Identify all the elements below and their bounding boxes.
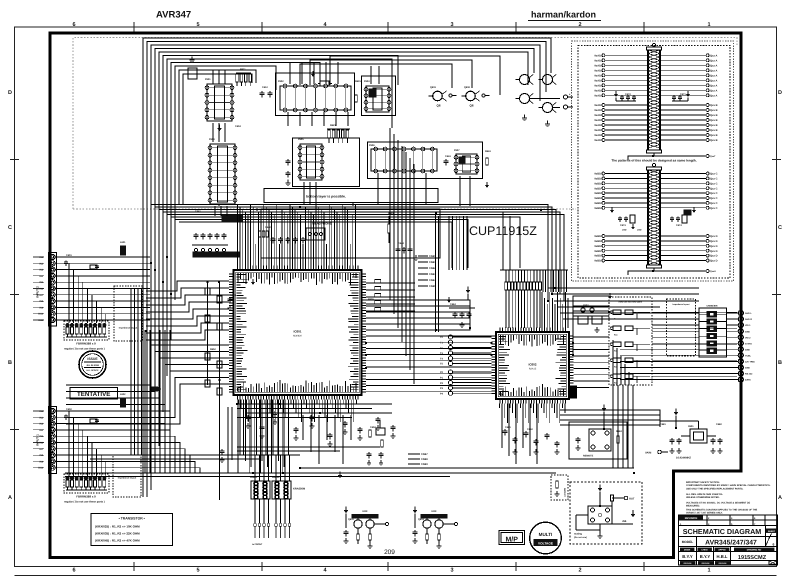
wire (QFP2 right) xyxy=(574,361,610,363)
wire (QFP1 top pin) xyxy=(265,207,267,266)
capacitor C648 xyxy=(376,417,381,424)
svg-text:C642: C642 xyxy=(265,226,271,229)
wire (QFP1 top pin) xyxy=(294,210,296,266)
svg-text:Qxx B: Qxx B xyxy=(710,104,718,107)
svg-text:Impedance layout: Impedance layout xyxy=(673,303,690,306)
CN604 pin xyxy=(699,341,727,346)
ref label P603 xyxy=(364,80,370,83)
wire (QFP1 bottom) xyxy=(324,400,326,418)
ref label X602 xyxy=(583,304,589,307)
svg-text:6: 6 xyxy=(72,568,75,574)
ground xyxy=(246,423,251,429)
svg-text:P604: P604 xyxy=(209,138,215,141)
resistor R640 xyxy=(388,216,391,243)
wire bus (mid horizontal) xyxy=(151,205,548,302)
ref label C642 xyxy=(265,226,271,229)
wire (QFP1 left) xyxy=(146,302,229,312)
grid column number 5 xyxy=(196,22,199,28)
bead near input1 xyxy=(90,398,126,423)
wire (QFP1 bottom) xyxy=(316,400,318,405)
svg-text:THIS SCHEMATIC DIAGRAM APPLIES: THIS SCHEMATIC DIAGRAM APPLIES TO THE CH… xyxy=(686,509,758,512)
wire (QFP2 top up) xyxy=(550,270,552,292)
unused part row xyxy=(610,326,650,337)
wire (QFP1 bottom) xyxy=(248,400,250,423)
wire (QFP1 top pin) xyxy=(339,215,341,266)
wire (QFP1 bottom) xyxy=(355,400,357,405)
wire (QFP1 bottom long) xyxy=(272,400,274,456)
capacitor C643 xyxy=(294,427,299,434)
wire (vertical bus right of QFP1) xyxy=(409,158,411,370)
wire (QFP2 right) xyxy=(574,355,610,357)
wire (QFP2 top up) xyxy=(552,270,554,292)
svg-text:C671: C671 xyxy=(680,93,686,96)
wire (QFP2 top up) xyxy=(563,270,565,292)
ref label P604 xyxy=(209,138,215,141)
line-out label xyxy=(574,533,587,540)
ref label R611 xyxy=(240,68,246,71)
svg-text:J56: J56 xyxy=(622,520,627,523)
svg-text:FBRRM389 x 9: FBRRM389 x 9 xyxy=(76,495,96,499)
bottom header row xyxy=(679,548,778,552)
wire (QFP2 bottom) xyxy=(517,404,519,424)
wire (QFP1 bottom) xyxy=(306,400,308,409)
wire (comb riser2) xyxy=(509,216,511,270)
TENTATIVE text xyxy=(77,391,110,398)
wire bus (to right connector) xyxy=(563,318,652,320)
resistor array R62x xyxy=(327,129,350,143)
svg-text:9xAD: 9xAD xyxy=(594,59,601,62)
svg-text:9xBD: 9xBD xyxy=(594,207,601,210)
junction dot xyxy=(572,354,575,357)
junction dot xyxy=(633,472,636,475)
svg-text:ISSUE: ISSUE xyxy=(87,357,98,361)
svg-text:(KRXI045) : R1, R2 => 47K OHM: (KRXI045) : R1, R2 => 47K OHM xyxy=(95,539,140,543)
crystal cap left xyxy=(670,438,682,445)
wire bus (top-left spine) xyxy=(151,45,540,490)
junction dot xyxy=(206,281,209,284)
svg-text:R655: R655 xyxy=(368,298,374,301)
crystal gflag xyxy=(674,408,679,428)
capacitor C649 xyxy=(391,425,396,432)
wire (QFP2 top) xyxy=(541,292,543,328)
headphone jack body xyxy=(306,228,325,240)
wire (QFP1 right stub) xyxy=(366,280,415,283)
junction dot xyxy=(252,472,255,475)
RCA jack terminal xyxy=(564,93,574,99)
test point TP2 xyxy=(440,381,492,385)
svg-text:YCBL: YCBL xyxy=(745,354,752,357)
twisted bus CN606 (lower) xyxy=(647,163,662,268)
wire (QFP1 top pin) xyxy=(352,215,354,266)
svg-text:CN68: CN68 xyxy=(421,458,428,461)
wire (IC-D bottom stub) xyxy=(214,206,216,216)
wire (QFP1-QFP2 bus) xyxy=(366,391,492,393)
capacitor C62x xyxy=(286,159,291,178)
wire (QFP2 right) xyxy=(574,386,610,388)
wire (RN2 out) xyxy=(289,499,291,524)
grid column number 2 xyxy=(578,22,581,28)
svg-text:9xAD: 9xAD xyxy=(594,129,601,132)
frame tick xyxy=(387,22,389,571)
svg-text:C652: C652 xyxy=(370,426,376,429)
wire (impedance bus) xyxy=(137,288,139,455)
IR gflag xyxy=(602,404,607,429)
svg-text:9xAD: 9xAD xyxy=(594,134,601,137)
svg-text:SCHEMATIC DIAGRAM: SCHEMATIC DIAGRAM xyxy=(683,527,762,536)
wire (IC-C top stub) xyxy=(378,66,380,84)
notes text xyxy=(686,501,750,504)
svg-text:X601: X601 xyxy=(688,425,694,428)
svg-text:M/P: M/P xyxy=(505,536,518,544)
svg-text:TENTATIVE: TENTATIVE xyxy=(77,391,110,398)
wire (input1 route) xyxy=(55,424,165,473)
wire (impedance bus) xyxy=(134,288,136,455)
TENTATIVE stamp box xyxy=(70,388,118,400)
junction dot xyxy=(469,327,472,330)
svg-text:A: A xyxy=(778,495,782,501)
bus2 mid parts right xyxy=(670,207,696,223)
page number 209 xyxy=(384,549,395,556)
transistor note box xyxy=(91,514,173,546)
wire (QFP1 top pin) xyxy=(305,207,307,266)
wire (QFP2 bottom long) xyxy=(529,404,531,457)
svg-text:B.Y.Y: B.Y.Y xyxy=(700,554,711,559)
wire (vertical bus right of QFP1) xyxy=(393,134,395,314)
wire (right feeder down) xyxy=(622,385,624,468)
transistor Q (right cluster) xyxy=(539,75,557,85)
wire (QFP1 left low) xyxy=(66,371,229,411)
ref label RN612 xyxy=(272,476,280,479)
junction dot xyxy=(365,354,368,357)
wire (QFP1 bottom to RN bus) xyxy=(282,400,284,474)
wire (QFP1 bottom) xyxy=(287,400,289,423)
grid column number 4 bottom xyxy=(323,568,327,574)
svg-text:B: B xyxy=(778,360,782,366)
wire (QFP1 bottom long) xyxy=(261,400,263,462)
RN602 note xyxy=(64,501,105,504)
junction dot xyxy=(218,379,221,382)
IC P601 (DIP, row1 left) xyxy=(205,84,234,121)
svg-text:C602: C602 xyxy=(66,408,72,411)
wire (input1 drop) xyxy=(68,411,70,477)
junction dot xyxy=(652,270,655,273)
note box bottom-layer xyxy=(264,189,438,203)
wire (QFP1 bottom to RN bus) xyxy=(265,400,267,456)
wire (QFP1 bottom to RN bus) xyxy=(287,400,289,456)
IC P607 (small row2) xyxy=(454,154,479,174)
wire (QFP1 right stub) xyxy=(366,301,415,304)
svg-text:9xAD: 9xAD xyxy=(594,94,601,97)
wire (QFP2 right) xyxy=(574,336,610,338)
ground xyxy=(294,435,299,441)
wire (vertical bus right of QFP1) xyxy=(413,164,415,384)
terminal xyxy=(279,524,282,538)
resistor network array RN611 xyxy=(251,481,270,499)
wire (input2 drop) xyxy=(77,276,79,323)
svg-text:KRX: KRX xyxy=(362,510,367,513)
wire (QFP2 bottom) xyxy=(540,404,542,409)
wire (IC-B bottom stub) xyxy=(323,112,325,126)
wire bus (top-left spine) xyxy=(155,49,534,471)
wire (QFP2 bottom) xyxy=(519,404,521,409)
svg-text:Qxx A: Qxx A xyxy=(710,69,718,72)
wire (input1 route) xyxy=(55,417,160,473)
wire (IC-E bottom stub) xyxy=(303,182,305,204)
wire xyxy=(310,60,472,88)
ref label C601 xyxy=(66,254,72,257)
wire (QFP1 left) xyxy=(146,330,229,340)
resistor array above QFP2 xyxy=(505,270,542,328)
wire (vertical bus right of QFP1) xyxy=(401,146,403,342)
svg-text:12V TRIG: 12V TRIG xyxy=(745,361,755,364)
wire (QFP1 top pin) xyxy=(307,210,309,266)
svg-text:IC602: IC602 xyxy=(528,363,536,367)
wire (QFP1 left low) xyxy=(66,358,229,398)
svg-text:9xBD: 9xBD xyxy=(594,182,601,185)
wire (right feeder down) xyxy=(627,385,629,468)
junction dot xyxy=(352,203,355,206)
svg-text:INPUT-1: INPUT-1 xyxy=(36,434,40,446)
wire (left vertical bus) xyxy=(169,330,171,473)
HEADPHONE label xyxy=(312,222,331,226)
RN array label xyxy=(293,488,305,491)
capacitor xyxy=(524,431,529,438)
keyboard cluster box xyxy=(222,215,242,222)
cap mid-left xyxy=(228,297,233,310)
wire (QFP1 top pin) xyxy=(239,207,241,266)
svg-text:IC601: IC601 xyxy=(293,330,301,334)
wire (QFP1 bottom) xyxy=(337,400,339,418)
svg-text:GND: GND xyxy=(745,348,750,351)
wire (QFP1 bottom) xyxy=(334,400,336,414)
svg-text:C: C xyxy=(778,225,782,231)
svg-text:CN67: CN67 xyxy=(421,453,428,456)
border connector pin xyxy=(727,316,753,321)
svg-text:Qxx A: Qxx A xyxy=(710,84,718,87)
svg-text:CHKD: CHKD xyxy=(701,549,708,552)
ref label Q613 xyxy=(418,518,425,521)
pullup resistor xyxy=(205,315,210,322)
svg-text:C604: C604 xyxy=(235,125,241,128)
wire (IC-F bottom stub) xyxy=(389,173,391,204)
net label stub xyxy=(408,458,428,461)
wire (QFP1 bottom long) xyxy=(278,400,280,462)
IR receiver body xyxy=(589,429,611,451)
svg-text:Qxx B: Qxx B xyxy=(710,134,718,137)
svg-text:DETECT: DETECT xyxy=(563,488,566,497)
wire (QFP1 bottom) xyxy=(272,400,274,418)
wire (QFP1 bottom) xyxy=(329,400,331,405)
svg-text:P607: P607 xyxy=(454,149,460,152)
svg-text:9xAD: 9xAD xyxy=(594,79,601,82)
wire (QFP2 top) xyxy=(564,292,566,328)
wire (QFP1 left) xyxy=(146,309,229,319)
svg-text:S-VHS: S-VHS xyxy=(745,342,752,345)
svg-text:RN612: RN612 xyxy=(272,476,280,479)
svg-text:DRAWING NO: DRAWING NO xyxy=(747,549,762,552)
ground xyxy=(285,179,290,185)
wire (QFP2 bottom) xyxy=(554,404,556,414)
svg-text:FBRRM389 x 9: FBRRM389 x 9 xyxy=(76,342,96,346)
wire (upper QFP1-QFP2) xyxy=(366,300,470,328)
border connector pin xyxy=(727,353,752,358)
wire (QFP2 top) xyxy=(544,298,546,328)
wire (upper QFP1-QFP2) xyxy=(366,328,470,330)
terminal xyxy=(449,94,457,97)
svg-text:9xBD: 9xBD xyxy=(594,235,601,238)
svg-text:ALL RES. ARE IN OHM 1/16W 5%: ALL RES. ARE IN OHM 1/16W 5% xyxy=(686,493,723,496)
wire (IC-G bottom stub) xyxy=(469,176,471,206)
wire (upper QFP1-QFP2) xyxy=(366,312,470,328)
grid row letter A xyxy=(8,495,12,501)
svg-text:9xAD: 9xAD xyxy=(594,109,601,112)
grid column number 6 bottom xyxy=(72,568,75,574)
wire xyxy=(330,56,500,95)
wire (QFP1 bottom) xyxy=(264,400,266,405)
svg-text:C601: C601 xyxy=(66,254,72,257)
wire (QFP1 left) xyxy=(146,295,229,305)
wire (QFP1 left low) xyxy=(66,365,229,405)
wire (IC-B bottom stub) xyxy=(347,112,349,126)
capacitor C613 xyxy=(268,91,273,98)
svg-text:Qxx C: Qxx C xyxy=(710,178,718,181)
wire (QFP1 top pin) xyxy=(299,215,301,266)
bottom fold line xyxy=(15,575,777,577)
IC P606 (wide DIP row2) xyxy=(371,147,437,173)
svg-text:05.03.16: 05.03.16 xyxy=(684,562,693,565)
wire (bottom rail 2) xyxy=(65,472,556,474)
title block frame xyxy=(679,515,778,565)
thick schematic border xyxy=(50,33,741,558)
wire (RN in) xyxy=(268,455,270,481)
junction dot xyxy=(675,427,678,430)
svg-text:COMPONENTS IDENTIFIED BY MARK: COMPONENTS IDENTIFIED BY MARK ! HAVE SPE… xyxy=(686,484,771,487)
bus2 mid parts left xyxy=(610,207,642,232)
RCA jack terminal xyxy=(564,105,574,109)
wire (center vertical bus) xyxy=(448,216,450,270)
svg-text:9xAD: 9xAD xyxy=(594,64,601,67)
svg-text:IN10: IN10 xyxy=(38,467,44,470)
svg-text:9xBD: 9xBD xyxy=(594,173,601,176)
wire (input1 route) xyxy=(55,436,175,473)
ref label Q601 xyxy=(430,86,437,89)
svg-text:H.K. OFFICE: H.K. OFFICE xyxy=(87,369,100,372)
resistor R63x xyxy=(486,158,489,165)
dashed box (line-out circuit) xyxy=(570,482,642,544)
grid column number 3 bottom xyxy=(450,568,453,574)
ground xyxy=(522,114,550,126)
wire xyxy=(183,74,252,205)
wire (right feeder down) xyxy=(632,385,634,468)
svg-text:9xBD: 9xBD xyxy=(594,197,601,200)
wire bus (top-left spine) xyxy=(159,52,528,446)
bus2 wires lower xyxy=(594,235,717,263)
wire (input1 drop) xyxy=(77,424,79,477)
wire (QFP1 bottom) xyxy=(290,400,292,405)
ref label P602 xyxy=(278,80,284,83)
terminal xyxy=(275,524,278,538)
border connector pin xyxy=(727,323,752,328)
junction dot xyxy=(490,342,493,345)
wire (QFP1 bottom) xyxy=(282,400,284,414)
svg-text:1: 1 xyxy=(768,536,770,540)
svg-text:C662: C662 xyxy=(527,428,533,431)
wire (QFP1 top pin) xyxy=(297,212,299,266)
wire xyxy=(179,222,452,268)
cap near input2 xyxy=(64,260,99,270)
wire (QFP1 top pin) xyxy=(284,212,286,266)
transistor Q xyxy=(429,91,447,108)
wire (IC-A top stub) xyxy=(218,70,220,84)
wire rail xyxy=(540,269,568,271)
svg-text:9xAD: 9xAD xyxy=(594,114,601,117)
wire (QFP2 ne) xyxy=(573,316,609,356)
wire (QFP1 top pin) xyxy=(310,212,312,266)
wire (below QFP1 right) xyxy=(318,415,320,464)
junction dot xyxy=(218,281,221,284)
wire (QFP2 top) xyxy=(549,292,551,328)
wire bus (mid horizontal) xyxy=(163,212,560,294)
wire (QFP1-QFP2 bus) xyxy=(366,347,492,349)
connector INPUT-1 xyxy=(33,407,150,474)
junction dot xyxy=(145,330,148,333)
wire (center vertical bus) xyxy=(462,216,464,270)
frame tick xyxy=(515,22,517,571)
ref label R652 xyxy=(210,348,216,351)
wire bus (to right connector) xyxy=(560,312,652,314)
wire (QFP1 top pin) xyxy=(244,212,246,266)
svg-text:9xAD: 9xAD xyxy=(594,104,601,107)
svg-text:VOLTAGES AT NO SIGNAL: DC VOLT: VOLTAGES AT NO SIGNAL: DC VOLTAGE & SEGM… xyxy=(686,501,750,504)
wire (QFP1 bottom) xyxy=(348,400,350,414)
wire (right vertical feeder) xyxy=(624,364,626,385)
junction dot xyxy=(170,293,173,296)
wire (QFP1 top pin) xyxy=(257,212,259,266)
wire (IC-B bottom stub) xyxy=(335,112,337,126)
svg-text:C664: C664 xyxy=(450,303,456,306)
wire xyxy=(90,458,260,460)
svg-text:6: 6 xyxy=(773,543,775,547)
capacitor C642 xyxy=(273,411,278,418)
part above IC P602 xyxy=(318,81,332,86)
border connector pin xyxy=(727,335,752,340)
svg-text:HEADPHONE: HEADPHONE xyxy=(312,222,331,226)
wire (vertical bus right of QFP1) xyxy=(405,152,407,356)
terminal xyxy=(482,94,490,97)
bus1 mid caps right xyxy=(672,91,690,101)
wire (QFP1 left low) xyxy=(66,378,229,418)
junction dot xyxy=(236,403,239,406)
line-out IC body xyxy=(588,506,612,524)
transistor Q xyxy=(462,91,480,108)
wire (to border connector) xyxy=(652,330,699,332)
wire (QFP2 bottom) xyxy=(530,404,532,409)
junction dot xyxy=(435,329,438,332)
svg-text:Q601: Q601 xyxy=(430,86,437,89)
wire (below QFP1 rail2) xyxy=(237,408,372,410)
wire (QFP1 bottom long) xyxy=(283,400,285,468)
wire (left vertical bus) xyxy=(164,330,166,473)
junction dot xyxy=(603,428,606,431)
capacitor C612 xyxy=(260,91,265,98)
grid column number 2 bottom xyxy=(578,568,581,574)
grid row letter D right xyxy=(778,90,782,96)
wire (IC-B bottom stub) xyxy=(299,112,301,126)
test point TP2 xyxy=(440,391,492,395)
wire loop around IC P602 xyxy=(276,73,355,116)
wire loop around IC P606/P607 xyxy=(368,142,483,179)
svg-text:9xAD: 9xAD xyxy=(594,124,601,127)
